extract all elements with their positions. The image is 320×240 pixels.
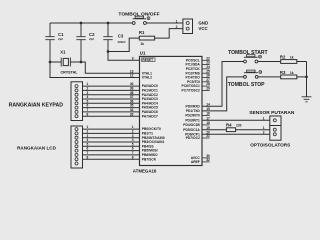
U1 pin 17 PD3/INT1 (right) xyxy=(185,116,210,122)
U1 pin 18 PD4/OC1B (right) xyxy=(183,121,210,127)
wire LCD pin 8 to U1 pin 8 xyxy=(83,158,140,160)
svg-text:PB7/SCK: PB7/SCK xyxy=(142,157,157,161)
connector optoisolator (2 pins) xyxy=(270,126,281,141)
connector sensor top (1 pin) xyxy=(270,116,281,126)
U1 pin 24 PC2/TCK (right) xyxy=(186,65,210,71)
svg-text:PD4/OC1B: PD4/OC1B xyxy=(183,123,200,127)
ground xyxy=(302,97,312,102)
svg-text:PD5/OC1A: PD5/OC1A xyxy=(183,128,200,132)
wire U1 pin 19 PD5 to R4 xyxy=(202,129,226,131)
wire crystal right lead xyxy=(70,61,81,63)
svg-text:2: 2 xyxy=(263,131,265,135)
U1 pin 32 AREF (right) xyxy=(191,158,210,164)
capacitor C3 xyxy=(103,23,126,52)
wire ground rail down xyxy=(306,62,308,97)
U1 pin 1 PB0/XCK/T0 (left) xyxy=(132,125,161,131)
IC U1 ATMEGA16 xyxy=(140,56,203,165)
U1 pin 9 RESET (left) xyxy=(132,56,155,62)
U1 pin 15 PD1/TXD (right) xyxy=(186,107,210,113)
U1 pin 21 PD7/OC2 (right) xyxy=(186,134,210,140)
U1 pin 6 PB5/MOSI (left) xyxy=(132,147,158,153)
svg-text:18: 18 xyxy=(206,121,210,125)
resistor R3 xyxy=(280,70,297,79)
U1 pin 28 PC6/TOSC1 (right) xyxy=(182,82,210,88)
wire R1 right to VCC pin 2 xyxy=(155,29,183,38)
wire LCD pin 2 to U1 pin 2 xyxy=(83,132,140,134)
svg-text:R1: R1 xyxy=(139,30,145,35)
U1 pin 25 PC3/TMS (right) xyxy=(186,69,211,75)
svg-text:CRYSTAL: CRYSTAL xyxy=(61,70,79,74)
U1 pin 30 AVCC (right) xyxy=(191,154,210,160)
svg-text:29: 29 xyxy=(206,87,210,91)
capacitor C2 xyxy=(76,23,95,62)
push button TOMBOL ON/OFF xyxy=(118,11,159,24)
svg-text:PD7/OC2: PD7/OC2 xyxy=(186,136,200,140)
svg-text:GND: GND xyxy=(198,20,208,25)
wire U1 pin 14 PD0 to start button xyxy=(202,62,244,107)
wire LCD pin 1 to U1 pin 1 xyxy=(83,128,140,130)
svg-text:1: 1 xyxy=(263,126,265,130)
svg-text:RANGKAIAN LCD: RANGKAIAN LCD xyxy=(17,146,56,151)
svg-text:VCC: VCC xyxy=(198,26,208,31)
U1 pin 7 PB6/MISO (left) xyxy=(132,151,158,157)
svg-text:8: 8 xyxy=(87,155,89,159)
U1 pin 34 PA6/ADC6 (left) xyxy=(130,108,158,114)
U1 pin 16 PD2/INT0 (right) xyxy=(185,112,210,118)
svg-text:PA7/ADC7: PA7/ADC7 xyxy=(142,114,158,118)
svg-text:ATMEGA16: ATMEGA16 xyxy=(133,169,157,174)
wire GND rail xyxy=(50,22,132,24)
push button TOMBOL STOP xyxy=(228,70,265,88)
U1 pin 22 PC0/SCL (right) xyxy=(186,56,210,62)
U1 pin 14 PD0/RXD (right) xyxy=(186,102,211,108)
U1 pin 37 PA3/ADC3 (left) xyxy=(130,95,158,101)
junction C3 top on GND rail xyxy=(107,22,110,25)
wire keypad pin 4 to U1 pin 37 xyxy=(83,98,140,100)
U1 pin 19 PD5/OC1A (right) xyxy=(183,126,210,132)
svg-text:AREF: AREF xyxy=(191,160,200,164)
junction R3/R2 ground rail xyxy=(305,76,308,79)
U1 pin 29 PC7/TOSC2 (right) xyxy=(182,87,210,93)
wire LCD pin 6 to U1 pin 6 xyxy=(83,150,140,152)
svg-text:2: 2 xyxy=(176,25,178,29)
U1 pin 27 PC5/TDI (right) xyxy=(187,78,210,84)
U1 pin 39 PA1/ADC1 (left) xyxy=(130,87,158,93)
U1 pin 20 PD6/ICP1 (right) xyxy=(185,130,210,136)
svg-text:8: 8 xyxy=(87,112,89,116)
wire keypad pin 8 to U1 pin 33 xyxy=(83,115,140,117)
svg-text:1: 1 xyxy=(263,116,265,120)
wire U1 pin 15 PD1 to stop button xyxy=(202,77,244,111)
svg-text:PC7/TOSC2: PC7/TOSC2 xyxy=(182,89,200,93)
wire LCD pin 7 to U1 pin 7 xyxy=(83,154,140,156)
wire start button to R2 xyxy=(258,61,281,63)
svg-text:32: 32 xyxy=(206,158,210,162)
svg-text:33: 33 xyxy=(130,112,134,116)
svg-text:XTAL2: XTAL2 xyxy=(142,76,152,80)
U1 pin 12 XTAL2 (left) xyxy=(130,74,152,80)
svg-text:PD1/TXD: PD1/TXD xyxy=(186,109,201,113)
U1 pin 2 PB1/T1 (left) xyxy=(132,130,153,136)
U1 pin 40 PA0/ADC0 (left) xyxy=(130,82,158,88)
wire stop button to R3 xyxy=(258,76,281,78)
svg-text:9: 9 xyxy=(132,56,134,60)
svg-text:1: 1 xyxy=(176,19,178,23)
svg-text:R2: R2 xyxy=(280,55,286,60)
crystal X1 xyxy=(60,49,78,74)
wire LCD pin 3 to U1 pin 3 xyxy=(83,137,140,139)
wire ON/OFF button to power connector pin 1 xyxy=(146,22,183,24)
wire XTAL2 net to U1 pin 12 xyxy=(50,62,140,78)
svg-text:RANGKAIAN KEYPAD: RANGKAIAN KEYPAD xyxy=(9,103,64,109)
svg-text:TOMBOL ON/OFF: TOMBOL ON/OFF xyxy=(118,11,159,17)
wire XTAL1 net to U1 pin 13 xyxy=(81,62,140,73)
svg-text:1k: 1k xyxy=(290,71,294,75)
connector J1 power (GND/VCC) xyxy=(183,19,193,34)
wire R2 right to ground rail xyxy=(297,61,307,63)
wire keypad pin 2 to U1 pin 39 xyxy=(83,89,140,91)
svg-text:R3: R3 xyxy=(280,70,286,75)
U1 pin 36 PA4/ADC4 (left) xyxy=(130,99,158,105)
resistor R4 xyxy=(226,122,242,131)
connector LCD (9 pins) xyxy=(71,126,83,168)
wire keypad pin 6 to U1 pin 35 xyxy=(83,107,140,109)
connector keypad (8 pins) xyxy=(71,82,83,121)
svg-text:OPTOISOLATORS: OPTOISOLATORS xyxy=(250,143,290,148)
U1 pin 33 PA7/ADC7 (left) xyxy=(130,112,158,118)
svg-text:X1: X1 xyxy=(60,49,66,54)
wire U1 pin 17 PD3 to sensor connector pin 1 xyxy=(202,119,270,121)
wire RESET net C3 to U1 pin 9 xyxy=(108,52,140,61)
svg-text:16: 16 xyxy=(206,112,210,116)
U1 pin 5 PB4/SS (left) xyxy=(132,142,155,148)
junction node XTAL2 (C1 bottom / crystal left) xyxy=(49,61,52,64)
wire R4 to sensor connector xyxy=(236,129,270,131)
U1 pin 8 PB7/SCK (left) xyxy=(132,155,157,161)
svg-text:12: 12 xyxy=(130,74,134,78)
svg-text:U1: U1 xyxy=(140,50,146,55)
svg-text:RESET: RESET xyxy=(142,58,153,62)
push button TOMBOL START xyxy=(228,50,268,63)
U1 pin 35 PA5/ADC5 (left) xyxy=(130,104,158,110)
junction RESET node at C3 lead xyxy=(107,50,110,53)
wire LCD pin 4 to U1 pin 4 xyxy=(83,141,140,143)
U1 pin 13 XTAL1 (left) xyxy=(130,69,152,75)
U1 pin 23 PC1/SDA (right) xyxy=(186,61,211,67)
svg-text:1k: 1k xyxy=(140,42,144,46)
U1 pin 26 PC4/TDO (right) xyxy=(186,74,211,80)
wire keypad pin 1 to U1 pin 40 xyxy=(83,85,140,87)
wire crystal left lead xyxy=(50,61,61,63)
svg-text:TOMBOL START: TOMBOL START xyxy=(228,50,268,56)
svg-text:TOMBOL STOP: TOMBOL STOP xyxy=(228,82,265,88)
svg-text:R4: R4 xyxy=(226,122,232,127)
U1 pin 38 PA2/ADC2 (left) xyxy=(130,91,158,97)
wire keypad pin 3 to U1 pin 38 xyxy=(83,94,140,96)
U1 pin 4 PB3/OC0/AIN1 (left) xyxy=(132,138,165,144)
wire LCD pin 5 to U1 pin 5 xyxy=(83,145,140,147)
svg-text:1k: 1k xyxy=(290,56,294,60)
svg-text:PD0/RXD: PD0/RXD xyxy=(186,104,201,108)
svg-text:100nf: 100nf xyxy=(117,40,126,44)
svg-text:PD3/INT1: PD3/INT1 xyxy=(185,118,200,122)
wire keypad pin 5 to U1 pin 36 xyxy=(83,102,140,104)
junction node XTAL1 (C2 bottom / crystal right) xyxy=(80,61,83,64)
U1 pin 3 PB2/INT2/AIN0 (left) xyxy=(132,134,165,140)
svg-text:SENSOR PUTARAN: SENSOR PUTARAN xyxy=(249,110,295,116)
wire R3 right to ground rail xyxy=(297,76,307,78)
wire U1 pin 20 PD6 to sensor connector pin 2 xyxy=(202,133,270,135)
resistor R2 xyxy=(280,55,297,64)
svg-text:8: 8 xyxy=(132,155,134,159)
wire RESET net to R1 left xyxy=(108,38,139,51)
junction C2 top on GND rail xyxy=(80,22,83,25)
svg-text:PD2/INT0: PD2/INT0 xyxy=(185,114,200,118)
capacitor C1 xyxy=(45,23,64,62)
svg-text:220: 220 xyxy=(236,123,242,127)
wire keypad pin 7 to U1 pin 34 xyxy=(83,111,140,113)
svg-text:C3: C3 xyxy=(118,34,124,39)
resistor R1 xyxy=(139,30,155,46)
